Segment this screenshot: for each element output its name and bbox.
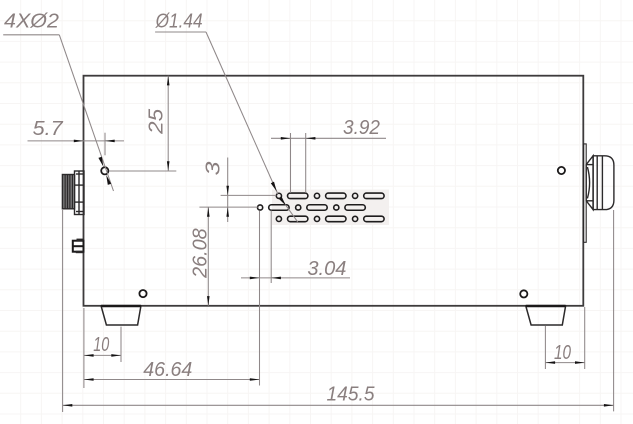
- svg-text:3: 3: [203, 162, 225, 176]
- vent row3: [276, 216, 384, 222]
- hole top-right: [558, 167, 565, 174]
- dimension 10 right: [545, 307, 584, 369]
- leader label O1.44: [155, 10, 298, 222]
- hole bottom-left: [139, 290, 146, 297]
- dimension 46.64: [84, 359, 260, 381]
- main body outline: [84, 76, 584, 306]
- vent row1: [276, 193, 384, 199]
- svg-text:25: 25: [145, 108, 167, 135]
- connector flange: [75, 171, 85, 215]
- small switch (left wall, below connector): [73, 239, 84, 254]
- foot right: [526, 306, 566, 325]
- knob body: [593, 156, 614, 210]
- dimension 3: [199, 158, 276, 223]
- svg-text:46.64: 46.64: [143, 359, 192, 381]
- svg-text:3.04: 3.04: [307, 258, 346, 280]
- svg-text:3.92: 3.92: [343, 117, 380, 139]
- dimension 145.5: [63, 210, 614, 412]
- dimension 26.08: [190, 207, 212, 306]
- knob mounting plate (right wall): [584, 144, 587, 242]
- dimension 3.04: [241, 211, 350, 386]
- svg-text:26.08: 26.08: [190, 228, 212, 278]
- foot left: [101, 306, 141, 325]
- svg-text:10: 10: [554, 342, 571, 364]
- hole top-left (4xO2): [101, 167, 108, 174]
- knob hub (trapezoid): [586, 156, 593, 210]
- dimension 3.92: [271, 117, 386, 193]
- svg-text:Ø1.44: Ø1.44: [155, 10, 203, 32]
- svg-text:10: 10: [93, 334, 109, 356]
- dimension 25: [109, 76, 176, 171]
- dimension 10 left: [84, 308, 121, 388]
- svg-text:4XØ2: 4XØ2: [4, 11, 59, 33]
- svg-text:5.7: 5.7: [33, 118, 64, 140]
- svg-text:145.5: 145.5: [327, 384, 376, 406]
- connector barrel (left, ribbed): [62, 175, 74, 209]
- hole bottom-right: [520, 290, 527, 297]
- vent row2: [258, 205, 366, 211]
- vent backdrop shading: [272, 190, 389, 226]
- leader label 4xO2: [3, 11, 113, 192]
- dimension 5.7: [28, 118, 125, 155]
